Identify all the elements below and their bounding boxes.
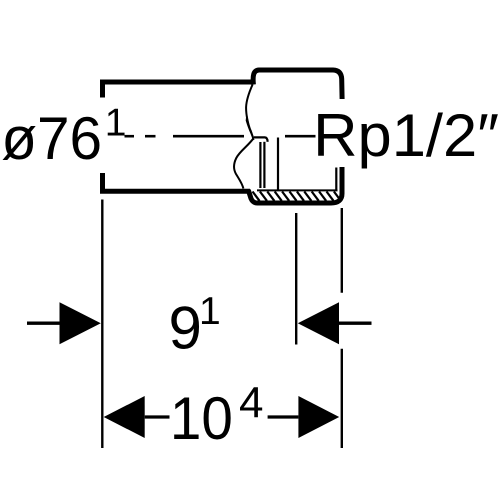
svg-text:Rp1/2″: Rp1/2″ [313,102,499,169]
svg-text:9: 9 [169,295,202,362]
svg-text:ø76: ø76 [1,104,102,172]
svg-text:10: 10 [170,386,233,453]
svg-text:1: 1 [105,101,127,144]
svg-text:4: 4 [239,378,263,427]
svg-text:1: 1 [199,290,221,333]
